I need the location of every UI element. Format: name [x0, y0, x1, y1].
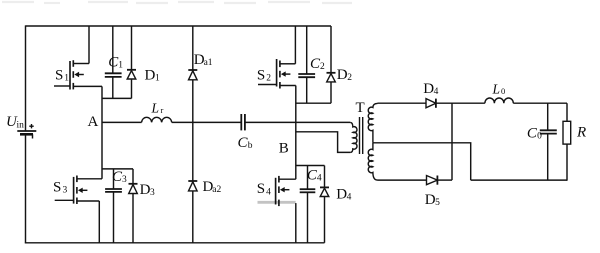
label C1 — [108, 55, 123, 71]
diode D3 — [129, 184, 138, 194]
svg-text:4: 4 — [266, 187, 271, 197]
wire right bridge leg (S2 source to S4 drain) — [295, 86, 297, 180]
capacitor C0 branch wire — [547, 103, 549, 180]
svg-text:S: S — [257, 181, 265, 197]
transformer T primary — [350, 122, 357, 152]
resistor R — [563, 121, 586, 144]
diode D5 — [427, 176, 438, 185]
inductor L0 — [485, 82, 513, 104]
capacitor C0 — [540, 130, 557, 133]
svg-text:D: D — [425, 192, 436, 208]
svg-text:L: L — [492, 82, 501, 97]
inductor Lr — [142, 100, 172, 122]
svg-text:1: 1 — [118, 61, 123, 71]
transistor S1 — [54, 60, 84, 89]
svg-text:4: 4 — [434, 87, 439, 97]
diode Da2 — [188, 181, 197, 191]
diode D4b — [320, 187, 329, 196]
wire node B to primary bottom — [296, 132, 350, 153]
svg-text:in: in — [17, 120, 25, 130]
label Da2 — [203, 179, 222, 195]
svg-text:D: D — [140, 182, 151, 198]
svg-text:r: r — [161, 105, 164, 115]
capacitor Cb — [238, 114, 253, 151]
wire C1 D1 bottom rail — [102, 97, 132, 99]
svg-text:0: 0 — [537, 132, 542, 142]
svg-text:1: 1 — [64, 74, 69, 84]
label D3 — [140, 182, 155, 198]
diode D2 — [327, 73, 336, 82]
svg-text:D: D — [423, 81, 434, 97]
label C4 — [307, 168, 322, 184]
wire left bridge leg (S1 source to S3 drain) — [101, 86, 103, 178]
wire D3 branch — [132, 169, 134, 243]
svg-text:T: T — [356, 100, 365, 116]
wire D4 to L0 — [436, 102, 485, 104]
transistor S2 — [257, 59, 291, 89]
wire top rail — [26, 25, 332, 27]
node B — [279, 141, 289, 157]
capacitor C4 — [300, 189, 316, 192]
svg-text:2: 2 — [266, 74, 271, 84]
svg-text:3: 3 — [122, 175, 127, 185]
label D4 bridge — [336, 186, 351, 202]
svg-text:S: S — [55, 67, 63, 83]
wire output bottom rail — [471, 179, 567, 181]
wire D4 bridge branch — [324, 166, 326, 243]
node A — [88, 114, 99, 130]
wire Da branch middle — [192, 80, 194, 181]
svg-text:1: 1 — [155, 74, 160, 84]
label D1 — [145, 68, 161, 84]
svg-text:D: D — [336, 186, 347, 202]
wire Lr to Cb — [172, 121, 242, 123]
label C0 — [527, 125, 542, 141]
wire S4 drain lead — [279, 178, 296, 180]
wire node A to Lr — [102, 121, 142, 123]
svg-text:a1: a1 — [204, 58, 213, 68]
label D5 — [425, 192, 440, 208]
transformer secondary bottom winding — [368, 143, 377, 180]
svg-text:L: L — [151, 100, 160, 115]
voltage source U_in — [6, 114, 36, 139]
wire S2 drain branch — [280, 26, 296, 64]
svg-text:S: S — [257, 67, 265, 83]
wire S2 source lead — [280, 85, 296, 87]
diode D1 — [127, 70, 136, 79]
svg-text:a2: a2 — [212, 185, 221, 195]
capacitor C4 branch wire — [307, 166, 309, 243]
label Da1 — [194, 52, 213, 68]
transistor S3 — [53, 176, 87, 205]
wire S3 source lead — [77, 201, 99, 243]
capacitor C3 — [105, 189, 122, 192]
wire — [2, 2, 352, 3]
wire D1 branch — [131, 26, 133, 98]
wire C4 D4 top rail — [296, 165, 325, 167]
label C2 — [310, 56, 325, 72]
svg-text:3: 3 — [63, 186, 68, 196]
capacitor C2 branch wire — [306, 26, 308, 103]
svg-text:A: A — [88, 114, 99, 130]
wire R branch — [566, 103, 568, 181]
diode Da1 — [188, 70, 197, 80]
wire D5 output junction vertical — [451, 103, 453, 180]
wire S1 drain branch — [73, 26, 89, 64]
wire secondary center tap — [373, 143, 471, 180]
svg-text:4: 4 — [317, 174, 322, 184]
capacitor C1 — [105, 73, 122, 77]
wire D5 to junction — [437, 179, 452, 181]
wire Da branch lower — [192, 191, 194, 243]
svg-text:S: S — [53, 180, 61, 196]
label C3 — [112, 169, 127, 185]
wire S3 drain lead — [77, 178, 102, 180]
svg-text:2: 2 — [320, 62, 325, 72]
wire L0 to top right corner — [513, 102, 567, 104]
label T — [356, 100, 365, 116]
wire S1 source lead — [73, 85, 102, 87]
svg-text:D: D — [145, 68, 156, 84]
wire C3 D3 top rail — [102, 168, 133, 170]
wire D2 branch — [330, 26, 332, 103]
capacitor C3 branch wire — [113, 169, 115, 243]
svg-text:B: B — [279, 141, 289, 157]
wire S4 source lead — [295, 203, 297, 243]
transformer core — [360, 117, 363, 154]
diode D4 output — [426, 99, 436, 108]
wire secondary bottom to D5 — [378, 179, 427, 181]
wire left rail lower — [25, 134, 27, 243]
wire bottom rail — [25, 242, 325, 244]
transformer secondary top winding — [368, 103, 377, 142]
transistor S4 — [257, 176, 290, 206]
label D4 output — [423, 81, 438, 97]
svg-text:0: 0 — [501, 86, 505, 96]
wire Cb to transformer primary top — [245, 121, 350, 123]
wire S4 gray artifact — [258, 201, 296, 204]
svg-text:R: R — [576, 125, 586, 141]
label D2 — [337, 67, 352, 83]
svg-text:5: 5 — [435, 198, 440, 208]
wire left rail upper — [25, 25, 27, 131]
capacitor C1 branch wire — [112, 26, 114, 98]
svg-text:b: b — [248, 141, 253, 151]
wire C2 D2 bottom rail — [296, 102, 331, 104]
wire secondary top to D4 — [378, 102, 427, 104]
svg-text:2: 2 — [347, 73, 352, 83]
svg-text:3: 3 — [150, 188, 155, 198]
capacitor C2 — [298, 74, 315, 77]
svg-text:4: 4 — [347, 193, 352, 203]
svg-text:D: D — [337, 67, 348, 83]
wire Da branch upper — [192, 26, 194, 70]
